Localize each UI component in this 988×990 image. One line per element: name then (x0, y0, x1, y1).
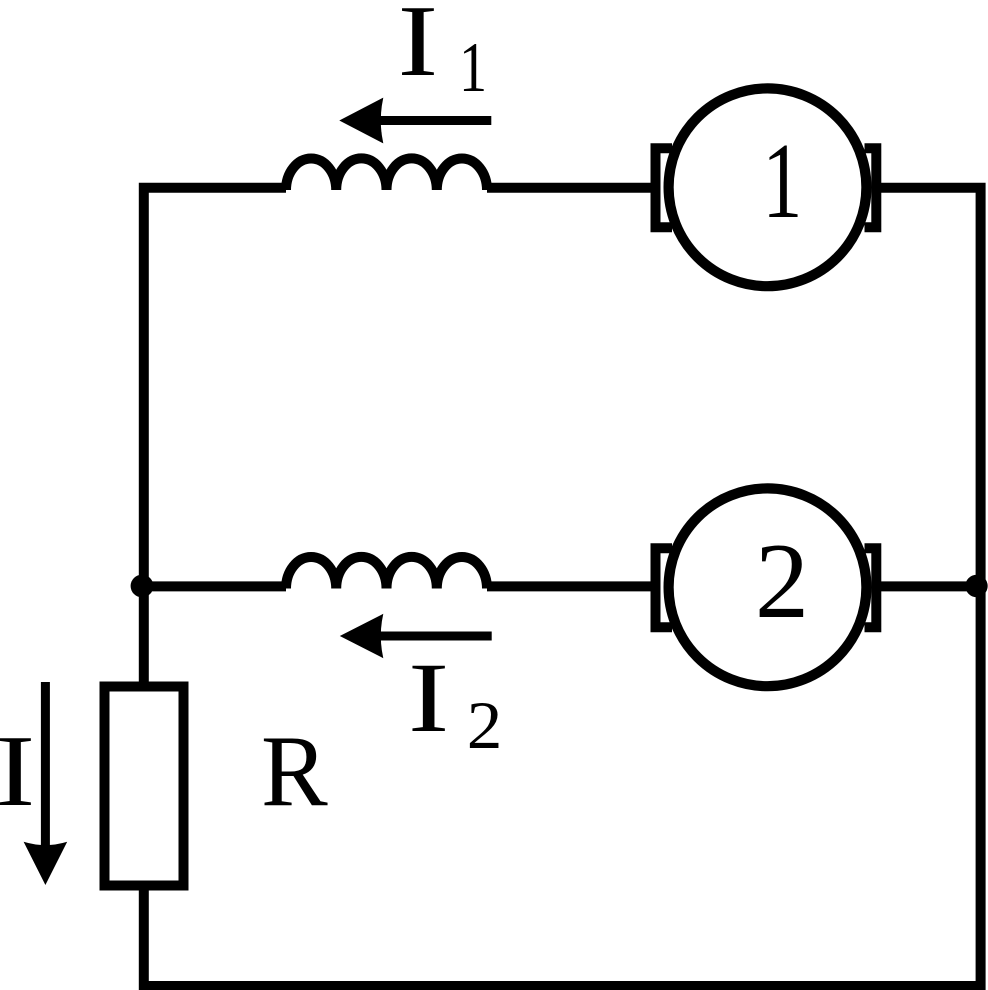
current arrow I shaft (41, 682, 50, 850)
svg-text:I: I (398, 0, 439, 98)
current arrow I2 head (340, 614, 384, 658)
motor M1 left brush bracket (656, 148, 673, 227)
current arrow I2 shaft (377, 632, 492, 641)
motor M1 right brush bracket (865, 148, 877, 227)
wire top between inductor L1 and motor 1 (487, 183, 651, 193)
current arrow I1 head (339, 98, 383, 144)
label I (0, 715, 35, 827)
wire top-left corner and left rail (144, 188, 286, 682)
wire between inductor L2 and motor 2 (487, 581, 651, 591)
inductor L2 (286, 557, 487, 589)
motor M2 label 2 (755, 521, 809, 641)
node A junction dot (131, 575, 154, 598)
motor M2 left brush bracket (656, 548, 673, 627)
svg-text:1: 1 (459, 28, 487, 107)
node B junction dot (965, 575, 987, 597)
wire right loop: motor1 to right rail, down, bottom wire, up to resistor bottom (144, 188, 981, 986)
svg-text:2: 2 (755, 521, 809, 641)
svg-text:2: 2 (467, 689, 503, 764)
current arrow I1 shaft (377, 116, 491, 125)
svg-text:R: R (261, 714, 328, 827)
current arrow I head (24, 842, 68, 885)
wire motor 2 to node B (881, 581, 981, 591)
inductor L1 (286, 158, 487, 190)
svg-text:I: I (0, 715, 35, 827)
motor M2 right brush bracket (865, 548, 877, 627)
label I2 (408, 643, 449, 753)
wire middle from node A to inductor L2 (144, 581, 286, 591)
label R (261, 714, 328, 827)
motor M1 label 1 (762, 120, 802, 240)
motor M1 circle (669, 88, 867, 286)
svg-text:I: I (408, 643, 449, 753)
resistor R body (105, 687, 184, 886)
svg-text:1: 1 (762, 120, 802, 240)
motor M2 circle (669, 488, 867, 686)
label I1 (398, 0, 439, 98)
